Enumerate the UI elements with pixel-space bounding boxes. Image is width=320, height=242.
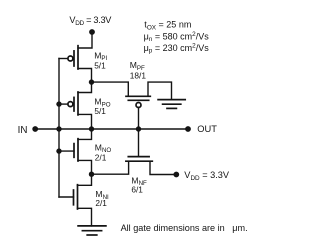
wire MPI gate to input rail [59,58,68,60]
svg-text:μp = 230 cm2/Vs: μp = 230 cm2/Vs [144,43,210,55]
wire input rail vertical [58,59,60,198]
wire VDD top to MPI drain [78,32,92,48]
junction rail/MPO gate [56,101,61,106]
transistor MPO (PMOS) body [68,92,78,115]
junction node OUT column [89,126,94,131]
svg-text:IN: IN [18,125,28,136]
svg-text:6/1: 6/1 [131,184,143,194]
svg-text:VDD = 3.3V: VDD = 3.3V [69,15,112,27]
wire MNO gate to rail [59,150,74,152]
wire MPO gate to rail [59,103,68,105]
wire MPI source to node A [78,69,92,83]
ground under MPF [158,100,185,109]
transistor MPF (PMOS, horizontal) body [126,96,150,107]
svg-text:5/1: 5/1 [94,60,106,70]
wire MPO drain to OUT line [78,114,92,129]
wire MNF gate to OUT line [138,129,140,157]
svg-text:5/1: 5/1 [94,106,106,116]
svg-text:All gate dimensions are in μ: All gate dimensions are in μm. [121,223,248,233]
svg-text:2/1: 2/1 [95,152,107,162]
svg-text:VDD = 3.3V: VDD = 3.3V [184,170,230,182]
node VDD top terminal dot [89,29,95,35]
wire node B to MNI drain [78,174,92,185]
wire node A to MPO source [78,82,92,92]
wire MNI gate to rail [59,196,74,198]
wire MPF gate to OUT line [138,108,140,130]
wire MNF source to VDD right [150,161,176,174]
node IN terminal dot [32,126,38,132]
wire MNO drain to OUT line [78,129,92,139]
svg-text:tOX = 25 nm: tOX = 25 nm [144,20,191,32]
svg-text:μn = 580 cm2/Vs: μn = 580 cm2/Vs [144,31,210,43]
transistor MPI (PMOS) body [68,46,78,69]
svg-text:OUT: OUT [197,124,217,134]
transistor MNF (NMOS, horizontal) body [126,157,152,162]
wire IN to OUT horizontal line [35,128,188,130]
junction node B [89,172,94,177]
transistor MNI (NMOS) body [74,185,78,209]
svg-text:2/1: 2/1 [95,198,107,208]
wire MPF source to ground [148,82,172,100]
wire MNO source to node B [78,160,92,174]
junction rail/MNO gate [56,148,61,153]
wire node A to MPF drain [92,82,129,96]
svg-text:18/1: 18/1 [130,70,147,80]
junction MPF/MNF gates on OUT line [136,126,141,131]
wire MNI source to ground [78,208,92,226]
node VDD right terminal dot [173,172,179,178]
node OUT terminal dot [185,126,191,132]
junction node A [89,79,94,84]
transistor MNO (NMOS) body [74,139,78,161]
wire MNF drain to node B [92,161,129,174]
junction rail/IN line [56,126,61,131]
ground under MNI [78,226,106,235]
